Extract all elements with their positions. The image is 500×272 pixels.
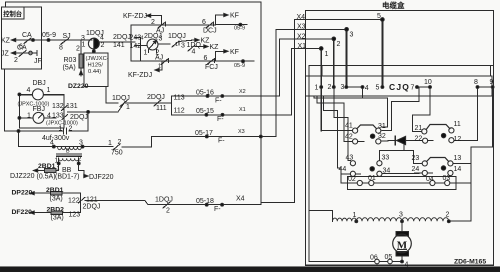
wire transformer row bbox=[19, 146, 112, 148]
svg-text:KF-ZDJ: KF-ZDJ bbox=[128, 72, 152, 79]
wire post1 down bbox=[320, 49, 322, 131]
wire coil to box bbox=[93, 49, 95, 53]
wire t down2 bbox=[322, 96, 324, 110]
wire riser v1 x=260.8 bbox=[260, 2, 262, 205]
wire 31 right bbox=[382, 130, 391, 132]
contact point 32 bbox=[376, 139, 381, 144]
wire vertical x=131 bbox=[130, 25, 132, 61]
svg-text:6: 6 bbox=[202, 19, 206, 26]
svg-text:2DQJ: 2DQJ bbox=[70, 114, 88, 121]
svg-text:05-9: 05-9 bbox=[234, 26, 245, 32]
contact point 41 bbox=[353, 128, 358, 133]
svg-text:22: 22 bbox=[415, 136, 423, 143]
contact bridge 21-11 bbox=[426, 125, 450, 130]
wire t1 down bbox=[313, 96, 315, 98]
coil 2DQJ needle bbox=[149, 41, 157, 49]
wire down to KF-ZDJ2 bbox=[161, 61, 163, 70]
wire to motor bbox=[401, 221, 403, 231]
wire bus e bbox=[450, 182, 471, 184]
relay coil FBJ bbox=[33, 112, 44, 123]
wire to 750 contact bbox=[122, 146, 152, 148]
needle arrow bbox=[154, 41, 157, 44]
wire rise bbox=[118, 103, 124, 112]
svg-text:H125/: H125/ bbox=[88, 63, 104, 69]
inductor L2 bbox=[356, 218, 402, 222]
wire to coil 2 bbox=[449, 220, 471, 222]
relay coil 2DQJ bbox=[147, 39, 158, 50]
contact point 02 bbox=[357, 180, 362, 185]
svg-text:43: 43 bbox=[346, 155, 354, 162]
contact point 13 bbox=[448, 161, 453, 166]
svg-text:X4: X4 bbox=[236, 196, 245, 203]
wire box1 to row D bbox=[106, 102, 118, 104]
wire down bbox=[151, 137, 153, 148]
svg-text:DCJ: DCJ bbox=[203, 28, 217, 35]
wire 34 to 24 bbox=[382, 172, 422, 174]
contact point 34 bbox=[377, 171, 382, 176]
wire box down bbox=[105, 87, 107, 104]
wire contact node v bbox=[80, 193, 82, 212]
svg-text:4uf-300v: 4uf-300v bbox=[42, 135, 70, 142]
wire row 05-15 bbox=[178, 114, 292, 116]
wire down to 05-15 bbox=[171, 103, 173, 115]
stub 243 bbox=[135, 36, 140, 38]
junction 4 bbox=[401, 260, 404, 263]
svg-text:05-16: 05-16 bbox=[196, 90, 214, 97]
svg-text:04: 04 bbox=[426, 176, 434, 183]
svg-text:6: 6 bbox=[204, 55, 208, 62]
CJQ terminal 8 bbox=[476, 86, 479, 89]
contact point 01 bbox=[369, 180, 374, 185]
wire row 05-18 bbox=[148, 204, 261, 206]
motor M bbox=[393, 234, 412, 253]
svg-text:11: 11 bbox=[454, 121, 461, 128]
contact 22 arm bbox=[428, 140, 433, 142]
svg-text:4: 4 bbox=[192, 49, 196, 56]
junction bbox=[221, 113, 224, 116]
capacitor plate 2 bbox=[66, 128, 68, 134]
CJQ terminal 10 bbox=[429, 86, 432, 89]
wire JZ row bbox=[12, 52, 38, 54]
wire row D right bbox=[160, 102, 172, 104]
svg-text:122: 122 bbox=[68, 197, 80, 204]
wire v to 31 bbox=[386, 98, 388, 127]
contact 1DQJ2 bbox=[188, 45, 195, 51]
svg-text:05-9: 05-9 bbox=[42, 32, 56, 39]
wire cap row bbox=[69, 130, 88, 132]
wire X1 stub bbox=[292, 48, 322, 50]
wire bus a bbox=[341, 182, 357, 184]
svg-text:06: 06 bbox=[370, 255, 378, 262]
svg-text:F-: F- bbox=[215, 98, 222, 105]
diode D1 bbox=[397, 136, 406, 144]
svg-text:2: 2 bbox=[76, 46, 80, 53]
svg-text:(3A): (3A) bbox=[51, 215, 64, 222]
svg-text:2: 2 bbox=[78, 156, 82, 163]
wire jog bbox=[83, 171, 85, 175]
contact 1DQJ bbox=[172, 41, 179, 47]
inductor L1 bbox=[333, 218, 357, 221]
contact point 11 bbox=[449, 128, 454, 133]
wire sec2 down bbox=[78, 158, 80, 170]
wire t1b down bbox=[316, 96, 318, 103]
contact 122-121 bbox=[79, 197, 86, 203]
junction 3 bbox=[401, 220, 404, 223]
wire post2 down bbox=[333, 39, 335, 87]
svg-text:12: 12 bbox=[454, 136, 462, 143]
svg-text:3: 3 bbox=[181, 43, 185, 50]
contact point 21 bbox=[422, 129, 427, 134]
svg-text:2DQJ: 2DQJ bbox=[113, 34, 131, 41]
wire KF arrow bbox=[216, 14, 225, 16]
svg-text:2: 2 bbox=[446, 212, 450, 219]
wire h3 bbox=[323, 109, 337, 111]
svg-text:05: 05 bbox=[385, 254, 393, 261]
moving contact BL bbox=[370, 167, 374, 171]
wire X4 stub bbox=[295, 19, 383, 21]
wire row A bbox=[131, 24, 216, 26]
wire console return h bbox=[4, 130, 18, 132]
wire KF2 bbox=[216, 50, 225, 52]
svg-text:2BD1: 2BD1 bbox=[46, 187, 64, 194]
wire feed h8 bbox=[379, 150, 413, 152]
wire to 31 bridge bbox=[382, 126, 387, 128]
svg-text:2DQJ: 2DQJ bbox=[147, 94, 165, 101]
svg-text:113: 113 bbox=[174, 95, 185, 102]
svg-text:(BD1-7): (BD1-7) bbox=[55, 174, 80, 181]
svg-text:3: 3 bbox=[159, 36, 163, 43]
svg-text:4: 4 bbox=[365, 85, 369, 92]
wire 121 right bbox=[85, 200, 145, 202]
svg-text:05-17: 05-17 bbox=[195, 130, 213, 137]
svg-text:控制台: 控制台 bbox=[3, 9, 22, 18]
wire fuse left bbox=[34, 170, 45, 172]
wire bottom left bbox=[309, 261, 375, 263]
svg-text:1: 1 bbox=[108, 140, 112, 147]
relay model box bbox=[84, 53, 108, 87]
contact 24 arm bbox=[427, 172, 432, 174]
transformer primary winding bbox=[58, 147, 82, 150]
post 3 bbox=[345, 28, 349, 32]
svg-text:2: 2 bbox=[101, 42, 105, 49]
svg-text:2: 2 bbox=[69, 126, 73, 133]
console box 控制台 bbox=[2, 7, 42, 69]
post 5 bbox=[381, 18, 385, 22]
svg-text:8: 8 bbox=[474, 79, 478, 86]
junction sec1 bbox=[57, 162, 60, 165]
wire X3 stub bbox=[276, 28, 347, 30]
svg-text:KF-ZDJ: KF-ZDJ bbox=[123, 13, 147, 20]
console label box bbox=[2, 7, 25, 19]
CJQ terminal 4 bbox=[361, 86, 364, 89]
wire 1DQJ to 2DQJ terminals bbox=[99, 41, 135, 43]
wire to 43 bbox=[348, 160, 350, 162]
svg-text:X1: X1 bbox=[298, 43, 307, 50]
contact SJ bbox=[61, 39, 69, 45]
contact 750 bbox=[113, 144, 120, 150]
svg-text:750: 750 bbox=[111, 150, 123, 157]
inductor L3 bbox=[402, 218, 449, 222]
svg-text:(0.5A): (0.5A) bbox=[37, 174, 56, 181]
svg-text:DZ220: DZ220 bbox=[68, 83, 89, 90]
contact bridge 23-13 bbox=[427, 158, 449, 162]
CJQ terminal 9 bbox=[491, 86, 494, 89]
wire sec2 right bbox=[79, 170, 84, 172]
svg-text:DF220: DF220 bbox=[12, 209, 33, 216]
svg-text:4: 4 bbox=[47, 113, 51, 120]
wire console top riser bbox=[5, 2, 7, 7]
junction 4 bbox=[52, 145, 55, 148]
post 1 bbox=[319, 47, 323, 51]
terminal strip CJQ bbox=[306, 76, 492, 96]
terminal circle 06 bbox=[375, 259, 380, 264]
CJQ terminal 3 bbox=[345, 86, 348, 89]
wire 8-9 bbox=[478, 86, 493, 88]
contact tick bbox=[178, 41, 180, 45]
svg-text:121: 121 bbox=[86, 197, 98, 204]
svg-text:KZ: KZ bbox=[1, 38, 11, 45]
svg-text:JF: JF bbox=[34, 58, 42, 65]
moving contact TL bbox=[370, 134, 374, 138]
junction bbox=[242, 60, 245, 63]
svg-text:4: 4 bbox=[50, 140, 54, 147]
junction DBJ left bbox=[18, 93, 21, 96]
diode cathode bar bbox=[394, 136, 396, 144]
wire 23 feed v bbox=[413, 151, 415, 164]
arrow DF220 bbox=[30, 211, 34, 214]
wire t2 down bbox=[333, 87, 335, 118]
junction bbox=[205, 135, 208, 138]
arrow to DZ220 bbox=[79, 71, 82, 75]
wire 44 feed v bbox=[340, 174, 342, 183]
svg-text:3: 3 bbox=[350, 32, 354, 39]
wire 3-4 bbox=[346, 86, 362, 88]
relay box DBJ FBJ bbox=[19, 95, 64, 128]
contact 133 bbox=[62, 115, 68, 120]
wire bus d bbox=[435, 182, 445, 184]
wire DP220 row bbox=[30, 192, 51, 194]
svg-text:1: 1 bbox=[144, 50, 148, 57]
svg-text:1: 1 bbox=[175, 42, 178, 48]
svg-text:0.44): 0.44) bbox=[88, 69, 101, 75]
svg-text:X2: X2 bbox=[239, 89, 246, 95]
wire to 42 bbox=[344, 140, 352, 142]
junction 1 bbox=[355, 220, 358, 223]
svg-text:03: 03 bbox=[443, 175, 451, 182]
svg-text:(5A): (5A) bbox=[63, 65, 76, 72]
svg-text:DJZ220: DJZ220 bbox=[10, 173, 35, 180]
contact point 14 bbox=[448, 170, 453, 175]
svg-text:1: 1 bbox=[353, 212, 357, 219]
contact AJ2 bbox=[161, 59, 169, 65]
contact CA bbox=[24, 38, 31, 44]
wire h4 bbox=[334, 117, 348, 119]
svg-text:KZ: KZ bbox=[210, 44, 220, 51]
contact FCJ bbox=[207, 59, 215, 65]
svg-text:21: 21 bbox=[415, 125, 423, 132]
svg-text:SJ: SJ bbox=[63, 33, 71, 40]
wire sec1 down bbox=[58, 158, 60, 170]
wire feeder tap right bbox=[490, 66, 492, 76]
svg-text:1: 1 bbox=[158, 64, 161, 70]
svg-text:1: 1 bbox=[27, 113, 31, 120]
wire t4 down bbox=[362, 87, 364, 98]
wire DBJ left stub bbox=[19, 93, 32, 95]
svg-text:DJF220: DJF220 bbox=[89, 174, 114, 181]
wire KF-ZDJ bbox=[147, 15, 162, 17]
wire v down4 bbox=[347, 118, 349, 161]
svg-text:42: 42 bbox=[345, 134, 353, 141]
svg-text:CJQ: CJQ bbox=[389, 82, 410, 92]
contact frame bbox=[348, 177, 457, 190]
svg-text:8: 8 bbox=[59, 45, 63, 52]
junction bbox=[221, 203, 224, 206]
wire riser X2 bbox=[278, 39, 280, 96]
wire diode to 22 bbox=[406, 139, 423, 141]
svg-text:10: 10 bbox=[424, 79, 432, 86]
contact 1DQJ4 bbox=[163, 202, 170, 208]
svg-text:1: 1 bbox=[57, 166, 60, 172]
contact 1DQJ3 bbox=[120, 101, 127, 107]
contact point 04 bbox=[430, 180, 435, 185]
svg-text:14: 14 bbox=[454, 166, 462, 173]
arrow KF-ZDJ bbox=[147, 14, 151, 17]
svg-text:5: 5 bbox=[376, 85, 380, 92]
svg-text:1DQJ: 1DQJ bbox=[112, 95, 130, 102]
wire v to 21 bbox=[412, 115, 414, 131]
svg-text:X2: X2 bbox=[297, 33, 306, 40]
wire v down3 bbox=[337, 110, 339, 168]
contact 132-131 bbox=[62, 106, 68, 111]
motor brush bottom bbox=[396, 252, 409, 257]
junction node bbox=[87, 111, 90, 114]
junction riser bbox=[259, 135, 262, 138]
junction bbox=[32, 39, 35, 42]
svg-text:FBJ: FBJ bbox=[33, 106, 45, 113]
junction bbox=[206, 95, 209, 98]
relay coil DBJ bbox=[32, 89, 43, 100]
svg-text:05-9: 05-9 bbox=[234, 63, 245, 69]
svg-text:05-15: 05-15 bbox=[196, 108, 214, 115]
arrow KF bbox=[224, 13, 228, 16]
svg-text:2DQJ: 2DQJ bbox=[83, 204, 101, 211]
wire 33 feed v bbox=[378, 151, 380, 161]
moving contact TR bbox=[441, 133, 445, 137]
svg-text:132: 132 bbox=[52, 103, 64, 110]
FBJ needle bbox=[39, 114, 43, 118]
arrow KZ bbox=[195, 38, 199, 41]
svg-text:4: 4 bbox=[405, 262, 409, 269]
wire to inductors bbox=[309, 210, 333, 212]
svg-text:2: 2 bbox=[151, 19, 155, 26]
wire post1 to 41 bbox=[321, 130, 352, 132]
svg-text:FCJ: FCJ bbox=[205, 64, 218, 71]
svg-text:KF: KF bbox=[230, 13, 239, 20]
svg-text:123: 123 bbox=[69, 212, 81, 219]
junction bbox=[239, 23, 242, 26]
moving contact BR bbox=[441, 166, 445, 170]
wire row D bbox=[124, 102, 160, 104]
wire h2 bbox=[317, 102, 344, 104]
wire down to transformer bbox=[18, 131, 20, 147]
wire 13 right bbox=[453, 162, 471, 164]
svg-text:1: 1 bbox=[325, 51, 329, 58]
junction sec2 bbox=[77, 162, 80, 165]
svg-text:05-18: 05-18 bbox=[196, 198, 214, 205]
svg-text:1DQJ: 1DQJ bbox=[155, 197, 173, 204]
svg-text:34: 34 bbox=[383, 168, 391, 175]
svg-text:33: 33 bbox=[382, 155, 390, 162]
contact tick bbox=[214, 59, 216, 63]
wire to R03 bbox=[80, 40, 82, 54]
contact point 33 bbox=[377, 161, 382, 166]
wire top horizontal bbox=[6, 1, 261, 3]
svg-text:7: 7 bbox=[411, 85, 415, 92]
wire up to KF bbox=[215, 15, 217, 25]
svg-text:CA: CA bbox=[22, 32, 32, 39]
svg-text:JZ: JZ bbox=[1, 51, 10, 58]
svg-text:3: 3 bbox=[341, 84, 345, 91]
svg-text:B: B bbox=[66, 149, 70, 155]
wire FBJ left stub bbox=[19, 117, 33, 119]
svg-text:(3A): (3A) bbox=[50, 196, 63, 203]
wire post3 down bbox=[346, 29, 348, 87]
svg-text:2: 2 bbox=[166, 208, 170, 215]
wire v to 31r bbox=[390, 101, 392, 130]
wire to diode bbox=[381, 140, 395, 143]
wire t7 down bbox=[418, 87, 420, 101]
CJQ terminal 5 bbox=[381, 86, 384, 89]
lamp JF bbox=[29, 51, 33, 55]
svg-text:CA: CA bbox=[17, 45, 27, 52]
wire riser X4 bbox=[294, 20, 296, 203]
svg-text:5: 5 bbox=[377, 13, 381, 20]
wire FBJ right stub bbox=[44, 117, 56, 119]
2DQJ pin1 tick bbox=[148, 50, 150, 53]
wire h6 bbox=[413, 114, 431, 116]
contact point 42 bbox=[353, 139, 358, 144]
svg-text:DP220: DP220 bbox=[12, 190, 33, 197]
svg-text:24: 24 bbox=[412, 166, 420, 173]
wire to JF bbox=[32, 52, 37, 54]
wire 2DQJ out bbox=[158, 43, 170, 45]
svg-text:2: 2 bbox=[328, 84, 332, 91]
svg-text:111: 111 bbox=[156, 105, 167, 112]
contact bridge 41-31 bbox=[357, 125, 377, 129]
wire 12 to 8 bbox=[454, 140, 477, 142]
wire to fuse bbox=[56, 170, 59, 172]
DBJ needle bbox=[38, 90, 42, 94]
fuse 2BD1 bbox=[45, 169, 57, 173]
wire v right bbox=[470, 147, 472, 221]
svg-text:X3: X3 bbox=[297, 24, 306, 31]
wire DBJ right stub bbox=[43, 93, 64, 95]
wire DF220 row bbox=[30, 212, 51, 214]
wire jog down bbox=[145, 201, 148, 205]
arrow KZ bbox=[12, 38, 16, 41]
tick JF bbox=[36, 51, 38, 56]
wire h1 bbox=[314, 97, 388, 99]
wire diode tap v bbox=[403, 141, 405, 151]
svg-text:2: 2 bbox=[118, 139, 122, 146]
wire KF-ZDJ2 bbox=[155, 69, 162, 71]
wire t10 down bbox=[429, 87, 431, 115]
wire console return v bbox=[3, 69, 5, 131]
arrow DJF220 bbox=[84, 174, 88, 177]
svg-text:(JWJXC-: (JWJXC- bbox=[86, 56, 109, 62]
contact AJ bbox=[158, 22, 166, 28]
svg-text:01: 01 bbox=[368, 175, 376, 182]
